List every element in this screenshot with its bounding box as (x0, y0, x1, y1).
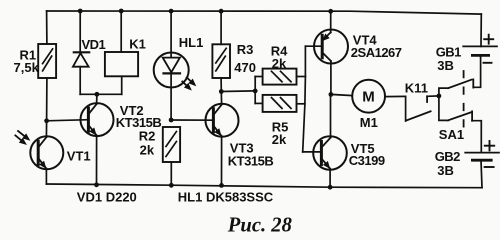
svg-text:K1: K1 (129, 36, 146, 51)
svg-text:M1: M1 (360, 115, 378, 130)
svg-text:KT315B: KT315B (228, 154, 274, 169)
svg-text:2k: 2k (272, 132, 287, 147)
svg-text:2SA1267: 2SA1267 (351, 45, 402, 60)
svg-text:3B: 3B (437, 163, 454, 178)
svg-text:GB2: GB2 (435, 149, 460, 164)
svg-text:C3199: C3199 (349, 153, 385, 168)
svg-text:K11: K11 (405, 80, 428, 95)
svg-text:470: 470 (234, 60, 256, 75)
svg-text:VT1: VT1 (67, 148, 91, 163)
svg-text:VD1: VD1 (82, 37, 106, 52)
svg-text:Рис. 28: Рис. 28 (227, 215, 292, 237)
svg-text:R3: R3 (237, 42, 254, 57)
svg-text:7,5k: 7,5k (14, 60, 40, 75)
svg-text:HL1: HL1 (179, 35, 204, 50)
svg-text:3B: 3B (437, 58, 454, 73)
svg-text:HL1 DK583SSC: HL1 DK583SSC (178, 189, 274, 204)
svg-text:2k: 2k (140, 142, 155, 157)
svg-text:VD1 D220: VD1 D220 (77, 189, 137, 204)
svg-text:R2: R2 (139, 128, 156, 143)
svg-text:KT315B: KT315B (116, 115, 162, 130)
svg-text:SA1: SA1 (439, 127, 464, 142)
svg-text:2k: 2k (272, 56, 287, 71)
svg-text:M: M (362, 89, 375, 106)
